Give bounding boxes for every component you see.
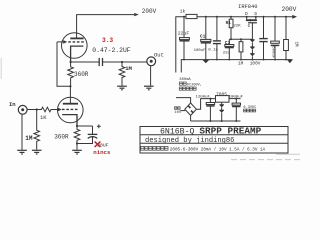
svg-text:22u: 22u: [223, 52, 231, 56]
label plus sign: [97, 125, 101, 127]
capacitor C1 100uF: [205, 17, 207, 40]
triode V1b grid: [62, 108, 78, 110]
wire in jack to R4: [27, 109, 37, 111]
node cathode bottom junction: [76, 142, 78, 144]
svg-text:designed by jinding86: designed by jinding86: [145, 137, 234, 145]
svg-text:0.47-2.2UF: 0.47-2.2UF: [92, 47, 131, 54]
faint scan line right: [276, 153, 300, 155]
node dots top rail: [183, 16, 287, 18]
svg-text:200V: 200V: [282, 6, 297, 13]
svg-text:1K: 1K: [40, 114, 47, 121]
resistor R1 22K box: [230, 17, 232, 20]
wire grid V1a down to SRPP node: [57, 42, 70, 86]
wire 7805 out: [229, 98, 241, 100]
faint scan line bottom: [231, 159, 300, 161]
triode V1b cathode: [62, 115, 77, 126]
wire output node: [71, 61, 99, 63]
wire AC input top: [176, 98, 191, 103]
wire grid V1a lead: [57, 41, 64, 43]
resistor R3 1M grid leak output: [119, 62, 125, 86]
capacitor C4 22uF: [183, 17, 185, 38]
svg-text:22K: 22K: [233, 25, 241, 29]
zener D2: [251, 43, 253, 48]
svg-text:nincs: nincs: [93, 149, 111, 156]
label HV annotation line2 CJK: [179, 82, 186, 85]
triode V1b envelope: [58, 97, 84, 123]
svg-text:C1: C1: [200, 34, 206, 40]
wire top rail: [197, 16, 293, 18]
faint scan edge left: [0, 58, 2, 79]
node cathode junction: [70, 61, 72, 63]
label HV annotation line3 CJK: [179, 87, 196, 90]
zener D3: [251, 50, 253, 54]
svg-text:600uF: 600uF: [271, 46, 275, 59]
capacitor C6 right film: [263, 17, 265, 39]
capacitor coupling 0.47-2.2uF: [98, 58, 100, 66]
node dots ground rail: [183, 59, 287, 61]
svg-text:1200uF: 1200uF: [196, 95, 211, 99]
capacitor C8 1200uF: [209, 99, 211, 103]
node arrow 200V right: [292, 15, 297, 19]
capacitor C5 0.1u: [216, 17, 218, 41]
svg-text:100uF: 100uF: [194, 49, 207, 53]
wire gate node: [229, 38, 252, 40]
svg-text:1M: 1M: [25, 135, 33, 142]
wire in jack to ground: [21, 114, 23, 150]
svg-text:1M: 1M: [125, 65, 132, 72]
svg-text:IRF840: IRF840: [238, 4, 257, 10]
svg-text:G: G: [248, 25, 251, 29]
node V1b cathode junction: [76, 125, 78, 127]
wire gate down: [251, 23, 253, 40]
wire AC input left: [180, 110, 185, 112]
svg-text:360R: 360R: [54, 133, 69, 140]
svg-text:2005-6-300V 20mA / 10V 1.5A /: 2005-6-300V 20mA / 10V 1.5A / 6.3V 1A: [170, 148, 266, 153]
resistor R4 1K grid stopper: [37, 107, 58, 112]
title block frame: [140, 127, 288, 154]
triode V1a cathode: [71, 46, 84, 62]
label heater CJK: [244, 109, 256, 112]
ground under R5: [76, 144, 78, 150]
regulator U1 7805 box: [216, 96, 230, 103]
capacitor C9 1000uF: [235, 99, 237, 103]
svg-text:0.1u: 0.1u: [208, 49, 218, 53]
wire heater ground rail: [191, 120, 241, 122]
resistor R6 1M input grid leak: [34, 110, 40, 150]
svg-text:200V: 200V: [142, 8, 157, 15]
svg-text:7805: 7805: [216, 91, 227, 97]
ground under R6: [32, 150, 42, 154]
label AC 10V CJK: [175, 107, 181, 110]
node 1M junction: [121, 61, 123, 63]
connector In jack: [18, 105, 27, 114]
resistor R8 1M box gate: [240, 39, 242, 41]
svg-text:300mA: 300mA: [179, 78, 191, 82]
triode V1a envelope: [62, 33, 88, 59]
ground arrow rail end: [287, 60, 292, 63]
capacitor C7 600uF: [274, 17, 276, 41]
connector Out jack: [147, 57, 156, 66]
bridge rectifier B1: [185, 103, 197, 115]
zener D1: [251, 38, 253, 41]
svg-text:6N16B-Q SRPP PREAMP: 6N16B-Q SRPP PREAMP: [160, 125, 262, 136]
svg-text:3.3: 3.3: [102, 37, 113, 44]
resistor R2 360R upper cathode: [68, 62, 74, 86]
svg-text:In: In: [9, 101, 16, 108]
svg-text:1M: 1M: [293, 42, 297, 48]
node input junction: [36, 108, 38, 110]
wire bridge bottom: [190, 115, 192, 121]
triode V1b plate: [63, 103, 78, 105]
capacitor C2 plates: [88, 133, 98, 135]
svg-text:Out: Out: [154, 51, 164, 58]
svg-text:1M: 1M: [238, 61, 244, 66]
ground under in jack: [17, 150, 27, 154]
svg-text:22uF: 22uF: [178, 31, 190, 37]
triode V1a grid: [68, 41, 84, 43]
capacitor C2 bypass 20UF top lead: [92, 126, 94, 134]
svg-text:R1: R1: [226, 21, 232, 26]
wire ground rail: [181, 60, 292, 73]
diode D4: [221, 102, 223, 105]
ground under out jack: [144, 86, 154, 90]
node arrow B+ left: [134, 13, 139, 16]
node SRPP junction: [69, 85, 71, 87]
svg-text:100V: 100V: [250, 61, 261, 66]
svg-text:10V: 10V: [174, 111, 182, 115]
wire tube V1 plate to B+: [77, 15, 135, 39]
svg-text:1k: 1k: [180, 9, 186, 15]
ground under R3: [117, 86, 127, 90]
wire out jack to ground: [150, 66, 152, 86]
label red X: [95, 142, 101, 147]
resistor R5 360R lower cathode: [74, 126, 80, 144]
capacitor C3 22u: [228, 39, 230, 44]
mosfet Q1 IRF840: [246, 17, 248, 20]
resistor R7 1k box: [186, 14, 197, 18]
wire bridge out to heater rail: [196, 99, 215, 110]
wire cathode to bypass cap: [77, 125, 93, 127]
title row3 CJK blob: [141, 146, 168, 150]
diode D5: [221, 108, 223, 111]
wire cap to out jack: [103, 61, 147, 63]
resistor R9 1M box right: [285, 17, 287, 40]
capacitor C2 bottom lead: [77, 137, 93, 144]
svg-text:360R: 360R: [74, 71, 89, 78]
ground arrow under C1: [203, 60, 209, 63]
wire HV input rail left: [176, 17, 186, 73]
triode V1a plate: [70, 37, 83, 39]
wire V1b plate to SRPP node: [69, 86, 71, 103]
